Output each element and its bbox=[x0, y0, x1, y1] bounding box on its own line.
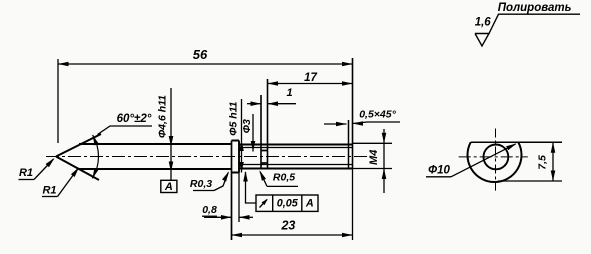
svg-text:R1: R1 bbox=[42, 184, 56, 196]
svg-text:Ф10: Ф10 bbox=[428, 165, 450, 177]
svg-text:A: A bbox=[305, 198, 314, 210]
svg-text:7,5: 7,5 bbox=[536, 155, 548, 170]
svg-text:23: 23 bbox=[280, 218, 295, 232]
svg-text:Ф4,6 h11: Ф4,6 h11 bbox=[156, 95, 168, 138]
svg-text:R0,3: R0,3 bbox=[190, 178, 212, 190]
svg-text:0,5×45°: 0,5×45° bbox=[359, 108, 396, 120]
svg-text:R0,5: R0,5 bbox=[273, 171, 295, 183]
svg-text:0,8: 0,8 bbox=[202, 204, 217, 216]
svg-text:A: A bbox=[164, 181, 173, 193]
svg-text:56: 56 bbox=[193, 47, 208, 62]
svg-text:Ф3: Ф3 bbox=[241, 119, 253, 133]
svg-text:М4: М4 bbox=[368, 150, 380, 165]
svg-text:R1: R1 bbox=[19, 167, 33, 179]
svg-text:Ф5 h11: Ф5 h11 bbox=[227, 101, 239, 135]
svg-text:60°±2°: 60°±2° bbox=[117, 113, 152, 125]
svg-text:1,6: 1,6 bbox=[475, 17, 492, 29]
svg-text:17: 17 bbox=[304, 72, 317, 84]
svg-text:Полировать: Полировать bbox=[498, 2, 572, 14]
svg-text:1: 1 bbox=[286, 87, 292, 99]
svg-text:0,05: 0,05 bbox=[277, 198, 299, 210]
